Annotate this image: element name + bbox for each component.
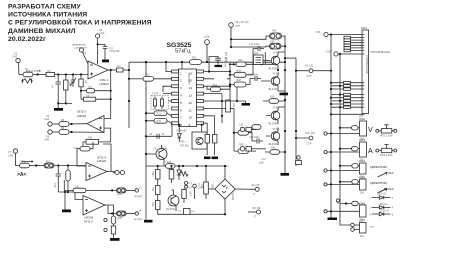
connector X15 [309,69,313,73]
svg-text:CN4: CN4 [359,159,365,163]
wire U1.3 inputs right [99,99,111,142]
resistor R14 [86,139,99,144]
wires to CN5 [328,182,360,185]
resistor at CN6 [352,201,358,205]
svg-text:СТР: СТР [307,143,312,146]
svg-text:2М: 2М [360,234,364,238]
svg-text:VТ3.2: VТ3.2 [273,73,280,76]
svg-text:4: 4 [180,94,182,98]
svg-text:С13: С13 [53,183,56,188]
ground drop [64,192,66,210]
bus vertical 2 [339,54,341,224]
node small circles [104,218,107,221]
wire pin12 long [222,101,246,103]
svg-text:С14 150н: С14 150н [249,136,260,139]
vertical rail A [128,62,130,128]
svg-text:IRLZ44N: IRLZ44N [268,143,278,146]
resistor R3 vertical [65,75,67,81]
trimmer RP3 [376,129,379,132]
ground bar pair [204,157,211,160]
svg-text:С13 150н: С13 150н [248,74,259,77]
node [157,165,159,167]
vertical rail D [221,94,223,124]
op-amp U1.4 [86,163,107,181]
svg-text:R21: R21 [200,184,203,189]
svg-text:ИП1 1:10в: ИП1 1:10в [380,134,393,138]
resistor R39 [155,201,160,210]
IC U1 SG3525 body [179,69,197,127]
svg-text:R14: R14 [88,137,93,140]
connector CN1 [362,30,369,114]
vertical link [236,86,238,101]
svg-text:6: 6 [180,108,182,112]
wire to ground [58,100,72,103]
wires to CN7 [351,223,355,227]
svg-text:СН0: СН0 [8,153,14,157]
svg-text:2М: 2М [360,191,364,195]
svg-text:Ф1 ОФ: Ф1 ОФ [252,184,260,187]
ground bar rail B [144,220,153,223]
test point circles [185,182,188,185]
node [97,43,99,45]
svg-text:R22: R22 [145,74,150,77]
trimmer RP2 [20,163,30,168]
svg-text:С РЕГУЛИРОВКОЙ ТОКА И НАПРЯЖЕН: С РЕГУЛИРОВКОЙ ТОКА И НАПРЯЖЕНИЯ [8,18,152,27]
pin 4 [172,92,179,95]
connector X19 [334,52,338,56]
connector X1 [16,58,20,62]
wires to CN6 [328,204,360,212]
svg-text:CN6: CN6 [359,201,365,205]
resistor R7 oval [64,180,73,190]
svg-text:RP1: RP1 [21,161,26,164]
wire pin3 [163,86,172,93]
resistor RT oval [154,111,167,116]
branch single [331,113,362,115]
CN1 pin feed lines top [344,36,362,52]
resistor at CN4 [352,164,358,168]
node [145,61,147,63]
CN1 inner pin ticks [362,35,364,115]
svg-text:П: П [253,193,255,196]
svg-text:СН0: СН0 [44,138,50,142]
capacitor C2 trimmer [58,75,76,101]
wire X8 down [231,27,270,47]
vertical rail C [229,66,231,112]
svg-text:470р 25в: 470р 25в [110,50,121,53]
transformer branch group 2 [330,93,362,108]
connector X4 [48,130,52,134]
svg-text:R37: R37 [151,187,154,192]
node [65,102,67,104]
svg-text:LED-U3: LED-U3 [380,210,390,213]
wires to CN2 [328,128,360,134]
node [65,73,67,75]
svg-text:3: 3 [180,86,182,90]
svg-text:СН0: СН0 [44,117,50,121]
resistor R42 vertical [182,190,186,199]
node [57,164,59,166]
svg-text:+15в: +15в [204,35,210,39]
wire U1.2 out [105,205,114,216]
resistor R18 oval on pin14 [211,87,221,92]
capacitor CT2 [161,97,163,110]
svg-text:R41: R41 [271,147,276,150]
svg-text:РАЗРАБОТАЛ СХЕМУ: РАЗРАБОТАЛ СХЕМУ [8,3,81,10]
switch arrow SA1 [378,173,388,178]
svg-text:КД2997В ВК: КД2997В ВК [370,165,387,169]
pin 5 [172,100,179,103]
ground bar [102,60,109,63]
svg-text:14: 14 [189,86,193,90]
test point circle [336,199,339,202]
connector X6 +15v [205,40,210,45]
resistor R7 [116,68,123,72]
pin 7 [172,114,179,117]
svg-text:R36: R36 [270,96,275,99]
pin 13 [197,92,204,95]
connector X9 out circle pair [115,170,119,174]
pin 14 [197,85,204,88]
capacitor C1 [56,75,61,91]
node [67,164,69,166]
title block text [8,3,152,43]
node [230,38,232,40]
svg-text:R26: R26 [237,79,242,82]
capacitor C5 vertical [80,75,82,80]
resistor R33 oval pair [117,188,127,193]
svg-text:16: 16 [189,71,193,75]
svg-text:ОП1-2: ОП1-2 [84,220,93,224]
wire from X1 to R1 [19,63,23,75]
transformer branch group 1 [330,82,362,91]
wires IC right side [204,72,235,124]
node [206,61,208,63]
test point circle [324,210,327,213]
resistor R34 pair [270,43,282,49]
diode VD3 [177,125,181,142]
svg-text:Х16 -Х17: Х16 -Х17 [305,132,316,135]
svg-text:VТ1 2N3906: VТ1 2N3906 [153,148,168,151]
node [67,191,69,193]
connector X14 box [240,147,244,151]
pin 15 [197,77,204,80]
svg-text:ДУВ: ДУВ [118,218,123,220]
connector X8 [229,23,234,28]
ground bar driver mid [280,93,289,96]
resistor R44 oval [238,130,249,135]
resistor R45 oval [238,149,249,154]
svg-text:+ват: +ват [235,25,241,28]
resistor R20 vertical [205,134,209,143]
resistor R29 vertical [213,134,217,143]
pin 3 [172,85,179,88]
optocoupler U3 [192,132,207,149]
op-amp U1.3 [87,116,104,133]
wire [30,165,45,167]
resistor R35 oval pair [117,211,127,216]
transistor VT2 2N7000 [168,195,179,206]
svg-text:R19: R19 [238,59,243,62]
power rail top [129,61,285,63]
svg-text:>А<: >А< [17,172,27,178]
svg-text:IRLZ44N: IRLZ44N [268,88,278,91]
resistor R6 [84,97,96,101]
resistor R9 [52,131,59,133]
svg-text:ор.(авт): ор.(авт) [134,195,143,198]
resistor R36 oval [269,99,279,104]
resistor R22 on pin2 [154,78,172,80]
svg-text:IRLZ44N: IRLZ44N [268,68,278,71]
svg-text:УТ: УТ [370,225,374,229]
pin 12 [197,100,204,103]
svg-text:ор.(авт): ор.(авт) [134,218,143,221]
svg-text:1: 1 [180,71,182,75]
svg-text:R24: R24 [157,120,162,123]
wire pin8 down [146,123,172,136]
capacitor C7 [209,57,221,72]
capacitor CT [154,97,156,110]
svg-text:С9С +: С9С + [180,141,187,144]
bus vertical 1 [330,35,332,218]
connector CN7 [360,223,367,234]
capacitor C12 [253,46,264,51]
transistor VT1 [156,149,167,160]
svg-text:11: 11 [189,108,192,112]
svg-text:V: V [368,127,373,134]
fan out circle F1 [255,187,259,191]
svg-text:100Е: 100Е [189,191,191,197]
timing network dashed box [151,96,169,110]
test point circle [324,132,327,135]
resistor R19 oval [236,62,246,67]
zener VD [177,166,181,180]
node [72,73,74,75]
resistor R10 [111,216,115,224]
svg-text:9: 9 [189,123,191,127]
node [57,73,59,75]
pin 8 [172,122,179,125]
node [64,191,66,193]
wire bottom [58,192,83,200]
svg-text:CN2: CN2 [359,117,365,121]
resistor at CN3 [352,147,359,151]
resistor R38 [155,170,160,180]
svg-text:2N7000: 2N7000 [166,208,175,211]
svg-text:R23: R23 [157,112,162,115]
op-amp U1.2 [83,196,105,216]
ground bar driver bottom [281,173,290,176]
wire bridge bottom [190,213,225,215]
resistor R41 oval [270,150,280,155]
svg-text:СТР: СТР [307,75,312,78]
wire X18 to CN1 [328,34,362,36]
svg-text:R31: R31 [192,57,197,60]
node [128,100,130,102]
svg-text:Х14: Х14 [239,143,244,146]
svg-text:VТ4.2: VТ4.2 [273,128,280,131]
svg-text:CN1: CN1 [361,26,367,30]
connector CN5 [360,179,367,190]
connector X11 [135,212,138,215]
svg-text:УПРАВЛЕНИЕ: УПРАВЛЕНИЕ [370,50,390,54]
pin 1 [172,70,179,73]
crystal zigzag mark [21,79,33,83]
svg-text:R28: R28 [167,161,172,164]
switch arrow SA2 [378,189,388,194]
wire X6 down [206,44,208,62]
resistor R32 pair [270,33,282,39]
svg-text:R17: R17 [232,103,235,108]
capacitor C13 [56,166,61,193]
svg-text:С12 100н: С12 100н [249,43,260,46]
resistor R43 oval [252,125,261,130]
wire bridge top [209,166,256,214]
svg-text:СТ RT: СТ RT [152,94,159,96]
svg-text:УПРАВЛЕНИЕ: УПРАВЛЕНИЕ [365,55,369,74]
resistor R26 oval [234,82,246,87]
svg-text:КД2997В ВК: КД2997В ВК [370,181,387,185]
svg-text:с делителя: с делителя [74,47,87,50]
MOSFET VT3.2 [271,77,280,86]
resistor R12 [44,163,54,168]
node [145,61,147,63]
capacitor C4 [103,47,107,60]
svg-text:У2 4№96: У2 4№96 [176,130,187,133]
resistor R31 oval on rail [190,60,202,65]
svg-text:+30т: +30т [99,31,105,35]
connector CN3 [360,142,367,157]
driver bus vertical 2 [295,58,297,166]
ground bar C7 [215,65,223,67]
test point circle [324,183,327,186]
fan out circle F2 [257,210,261,214]
svg-text:LM324: LM324 [97,159,107,163]
resistor R21 [204,182,209,194]
svg-text:2: 2 [180,79,182,83]
svg-text:ИП2 1:10в: ИП2 1:10в [380,153,393,157]
pin 10 [197,114,204,117]
svg-text:470 25в: 470 25в [180,145,189,148]
node [57,102,59,104]
resistor R24 oval [154,118,167,123]
wires to CN3 [328,149,360,152]
feedback vertical [110,70,112,99]
svg-text:КЦ405А: КЦ405А [231,192,234,201]
svg-text:CN3: CN3 [359,138,365,142]
svg-text:CN7: CN7 [359,219,365,223]
wire [158,183,184,214]
connector X5 +30 [96,34,100,38]
resistor R25 oval [234,72,246,77]
resistor R40 [169,170,174,180]
svg-text:LM324: LM324 [77,114,87,118]
svg-text:R32: R32 [272,30,277,33]
test point circle [324,150,327,153]
test point T3 [193,184,197,188]
svg-text:1нФ: 1нФ [259,162,264,165]
svg-text:ЗА1: ЗА1 [388,171,394,175]
svg-text:Х7: Х7 [8,150,12,154]
svg-text:ЗА2: ЗА2 [388,187,394,191]
wire pin5 [169,100,172,102]
connector CN2 [360,121,367,136]
connector CN6 [360,205,367,217]
svg-text:СН2: СН2 [12,55,18,59]
svg-text:R38: R38 [151,171,154,176]
svg-text:R18: R18 [213,84,218,87]
trimmer zigzag [181,172,189,177]
capacitor C13 [250,76,261,81]
op-amp U1.1 [88,61,108,79]
svg-text:5: 5 [180,101,182,105]
pin 16 [197,70,204,73]
wires to CN4 [328,166,360,171]
node [229,70,231,72]
MOSFET VT4.1 [271,111,280,120]
svg-text:10: 10 [189,116,193,120]
connector X18 [324,32,328,36]
svg-text:R39: R39 [151,202,154,207]
resistor R2 [33,74,46,76]
vertical link pin11 [233,108,235,151]
svg-text:Х13: Х13 [239,124,244,127]
link to bus2 [285,57,296,59]
capacitor C8 [157,134,159,139]
resistor R37 [155,186,160,195]
resistor at CN5 [352,180,358,184]
vertical rail B [145,62,147,220]
svg-text:7: 7 [180,116,182,120]
svg-text:R12: R12 [46,160,51,163]
resistor R13 [67,166,69,171]
wire rail to IC top [181,62,183,69]
svg-text:П: П [254,216,256,219]
node [110,69,112,71]
svg-text:R34: R34 [270,40,275,43]
svg-text:Х9 +30: Х9 +30 [305,65,314,68]
connector X3 [48,122,52,126]
ground bar [110,238,120,241]
resistor R8 [52,123,59,125]
connector X7 [13,149,17,153]
svg-text:LED-U1: LED-U1 [379,203,389,206]
pin 9 [197,122,204,125]
wire X7 down [16,153,20,165]
resistor R15 [80,146,90,151]
MOSFET VT3.1 [271,56,280,65]
svg-text:ДА1: ДА1 [254,52,259,55]
bridge rectifier VD1 [215,179,235,199]
connector DA2 stub [297,156,301,160]
test point circle [324,169,327,172]
wires driver to transformer [296,71,331,138]
node [35,164,37,166]
driver bus vertical [284,36,286,173]
wire pin1 left [166,62,172,72]
resistor R5 [86,89,94,93]
svg-text:20.02.2022г: 20.02.2022г [8,36,46,43]
MOSFET VT4.2 [271,132,280,141]
wire U1.4 out [103,144,125,173]
svg-text:15: 15 [189,79,193,83]
svg-text:IRLZ44N: IRLZ44N [268,123,278,126]
pin 11 [197,107,204,110]
ground bar [57,103,59,108]
capacitor C15 box [184,209,191,215]
svg-text:Х18: Х18 [316,31,321,34]
connector X13 box [240,127,244,131]
